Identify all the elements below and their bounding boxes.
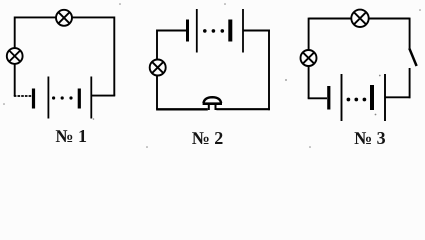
bell HA1 dome [204,97,222,103]
lamp HL2 (circuit 1 left) [7,48,23,64]
svg-text:№ 3: № 3 [354,128,386,148]
wire: circuit 2 left [156,30,158,110]
wire: circuit 3 bottom-left to battery [308,97,327,99]
wire: circuit 3 bottom-right to battery [385,96,411,98]
bell HA1 leg 1 [208,104,210,110]
battery GB1 long plate 1 [47,77,49,119]
wire: circuit 1 top [15,16,115,18]
wire: circuit 1 right [113,17,115,96]
wire: circuit 1 left [14,17,16,97]
scan noise specks [3,3,421,148]
battery GB3 dots [347,98,367,102]
svg-text:№ 2: № 2 [192,128,224,148]
wire: circuit 3 left [308,18,310,99]
wire: circuit 2 top-right [243,30,270,32]
lamp HL1 (circuit 1 top) [56,10,72,26]
battery GB1 long plate 2 [90,77,92,119]
lamp HL4 (circuit 3 top) [351,10,368,27]
wire: circuit 1 bottom-left to battery [14,95,32,97]
wire: circuit 2 right [268,30,270,111]
wire: circuit 3 right lower (from switch) [409,68,411,98]
wire: circuit 3 right upper (to switch) [409,18,411,49]
wire: circuit 2 bottom-right from bell [216,108,270,110]
wire: circuit 2 top-left [157,30,186,32]
bell HA1 leg 2 [215,104,217,110]
svg-text:№ 1: № 1 [55,126,87,146]
wire: circuit 1 bottom-right to battery [91,95,115,97]
wire: circuit 3 top [309,18,410,20]
battery GB2 dots [203,29,224,33]
battery GB1 short plate 2 [78,89,81,109]
bell HA1 base [203,102,222,105]
wire: circuit 2 bottom-left to bell [156,108,208,110]
lamp HL5 (circuit 3 left) [301,50,317,66]
battery GB1 short plate 1 [32,89,35,109]
battery GB2 long plate 1 [196,9,198,53]
battery GB3 short plate 2 [370,85,374,110]
switch S1 blade (open) [409,48,416,66]
battery GB3 long plate 1 [341,74,343,121]
lamp HL3 (circuit 2 left) [150,60,166,76]
battery GB3 long plate 2 [384,74,386,121]
battery GB1 dots [52,96,73,99]
battery GB2 short plate 2 [228,20,232,42]
battery GB3 short plate 1 [327,86,330,110]
battery GB2 long plate 2 [242,9,244,53]
battery GB2 short plate 1 [186,20,189,42]
